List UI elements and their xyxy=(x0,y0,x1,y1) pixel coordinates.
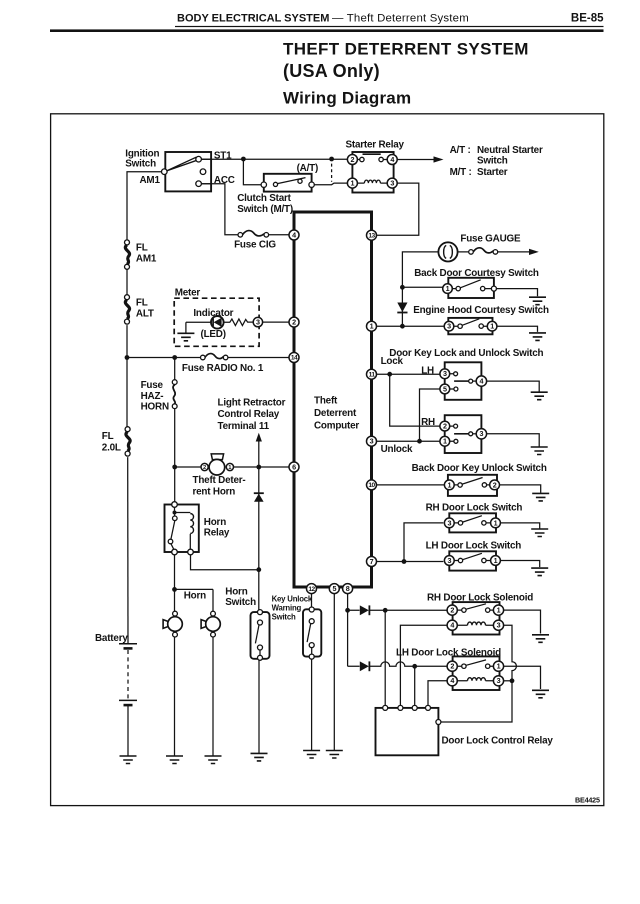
wire computer pin 1 to engine hood courtesy switch xyxy=(377,325,445,327)
svg-text:Switch: Switch xyxy=(477,156,508,167)
node junction pin 1 line / diode vertical xyxy=(400,324,405,329)
svg-text:Door Key Lock and Unlock Switc: Door Key Lock and Unlock Switch xyxy=(389,348,543,359)
diode D2 horn line (cathode up) xyxy=(254,493,264,502)
ground engine hood courtesy xyxy=(529,333,546,341)
RH door lock solenoid xyxy=(427,592,533,634)
ground LH door lock solenoid xyxy=(532,690,549,698)
key unlock warning switch xyxy=(272,595,322,660)
wire LH diode row with hops to LH solenoid pin 2 xyxy=(348,662,448,666)
svg-text:1: 1 xyxy=(490,322,494,331)
wire LH key switch pin 5 to unlock line xyxy=(420,389,440,441)
svg-text:1: 1 xyxy=(351,179,355,188)
meter box with indicator LED xyxy=(174,287,259,346)
svg-text:FL: FL xyxy=(136,298,148,309)
svg-text:BE4425: BE4425 xyxy=(575,796,600,805)
svg-text:1: 1 xyxy=(497,606,501,615)
svg-text:Lock: Lock xyxy=(381,356,404,367)
svg-text:Engine Hood Courtesy Switch: Engine Hood Courtesy Switch xyxy=(413,305,549,316)
svg-text:12: 12 xyxy=(308,586,315,593)
node junction radio line / haz-horn branch xyxy=(172,355,177,360)
svg-text:Back Door Courtesy Switch: Back Door Courtesy Switch xyxy=(414,268,539,279)
wire back door key unlock switch to ground xyxy=(500,485,541,493)
LH door lock switch xyxy=(426,540,522,570)
LH door lock solenoid xyxy=(396,648,504,690)
svg-text:HORN: HORN xyxy=(141,402,169,413)
svg-text:2.0L: 2.0L xyxy=(102,443,121,454)
wire RH solenoid pin 3 down with hop to door lock control relay xyxy=(441,625,517,722)
svg-text:(A/T): (A/T) xyxy=(297,163,318,174)
wire RH diode row to RH solenoid pin 2 xyxy=(348,609,448,611)
svg-text:2: 2 xyxy=(450,662,454,671)
svg-text:RH Door Lock Switch: RH Door Lock Switch xyxy=(426,503,523,514)
svg-text:Switch: Switch xyxy=(125,159,156,170)
starter relay xyxy=(346,139,405,192)
node junction pin 8 / RH diode branch xyxy=(345,608,350,613)
wire LH solenoid pin 3 stub xyxy=(504,680,512,682)
node ST1 A/T dashed branch xyxy=(329,157,334,162)
ground horn switch xyxy=(251,753,268,761)
wire ST1 branch down to clutch start switch xyxy=(243,159,261,185)
svg-text:4: 4 xyxy=(390,155,394,164)
wire fuse radio no.1 line xyxy=(127,357,289,359)
svg-text:1: 1 xyxy=(370,322,374,331)
svg-text:3: 3 xyxy=(447,322,451,331)
svg-text:M/T :: M/T : xyxy=(450,167,472,178)
pin 5 computer xyxy=(329,584,339,594)
wire meter to computer pin 2 xyxy=(263,321,289,323)
svg-text:5: 5 xyxy=(443,384,447,393)
wire A/T dashed bypass xyxy=(331,164,333,182)
engine hood courtesy switch xyxy=(413,305,549,334)
pin 7 computer xyxy=(367,557,377,567)
node junction RH diode / relay vertical A xyxy=(383,608,388,613)
svg-text:HAZ-: HAZ- xyxy=(141,391,164,402)
svg-text:3: 3 xyxy=(390,179,394,188)
svg-text:1: 1 xyxy=(494,556,498,565)
svg-text:3: 3 xyxy=(443,369,447,378)
wire FL 2.0L to battery xyxy=(127,457,129,643)
svg-text:Key Unlock: Key Unlock xyxy=(272,595,313,604)
wire RH door lock switch feed xyxy=(404,523,443,562)
wire computer pin 10 to back door key unlock switch xyxy=(377,484,445,486)
svg-text:Light Retractor: Light Retractor xyxy=(218,397,286,408)
svg-text:Clutch Start: Clutch Start xyxy=(237,193,291,204)
svg-text:FL: FL xyxy=(136,243,148,254)
battery xyxy=(95,633,137,756)
wire left rail FL ALT to FL 2.0L xyxy=(126,325,128,427)
svg-text:Fuse CIG: Fuse CIG xyxy=(234,240,276,251)
pin 10 computer xyxy=(367,480,377,490)
wire ST1 to starter relay pin 2 xyxy=(201,158,347,160)
pin 12 computer xyxy=(307,584,317,594)
wire left rail FL AM1 to FL ALT xyxy=(126,269,128,294)
wire computer pin 8 down to diodes xyxy=(347,593,349,666)
back door courtesy switch xyxy=(414,268,539,298)
svg-text:Starter Relay: Starter Relay xyxy=(346,139,405,150)
svg-text:(LED): (LED) xyxy=(201,329,226,340)
svg-text:Fuse RADIO No. 1: Fuse RADIO No. 1 xyxy=(182,363,264,374)
svg-text:Relay: Relay xyxy=(204,528,230,539)
svg-text:Wiring Diagram: Wiring Diagram xyxy=(283,89,411,108)
wire starter relay pin 3 to computer pin 13 xyxy=(377,183,419,235)
ground key unlock warning switch xyxy=(303,751,320,759)
ground RH door lock switch xyxy=(531,529,548,537)
svg-text:LH Door Lock Switch: LH Door Lock Switch xyxy=(426,540,522,551)
node junction back door line xyxy=(400,285,405,290)
wire retractor vertical down through diode to horn switch xyxy=(258,467,260,610)
wire horn switch to ground xyxy=(258,660,260,753)
svg-text:1: 1 xyxy=(447,480,451,489)
svg-text:6: 6 xyxy=(292,462,296,471)
node junction horn feed split xyxy=(172,587,177,592)
ground LH door lock switch xyxy=(531,568,548,576)
fuse GAUGE xyxy=(438,233,521,261)
svg-text:3: 3 xyxy=(256,318,260,327)
svg-text:Horn: Horn xyxy=(225,587,247,598)
svg-text:4: 4 xyxy=(450,621,454,630)
svg-text:Terminal 11: Terminal 11 xyxy=(218,421,270,432)
svg-text:Back Door Key Unlock Switch: Back Door Key Unlock Switch xyxy=(412,463,547,474)
pin 6 computer xyxy=(289,462,299,472)
ground meter internal xyxy=(177,333,194,341)
wire horn R to ground xyxy=(212,637,214,756)
svg-text:A/T :: A/T : xyxy=(450,145,471,156)
wire clutch start switch to starter relay pin 1 xyxy=(314,183,347,185)
svg-text:4: 4 xyxy=(450,676,454,685)
door lock control relay xyxy=(376,705,554,755)
pin 3 computer xyxy=(367,436,377,446)
svg-text:10: 10 xyxy=(368,482,375,489)
svg-text:Switch: Switch xyxy=(225,597,256,608)
node junction lock line split xyxy=(387,372,392,377)
ground back door courtesy xyxy=(529,297,546,305)
svg-text:FL: FL xyxy=(102,431,114,442)
svg-text:Computer: Computer xyxy=(314,420,359,431)
svg-text:3: 3 xyxy=(447,518,451,527)
wire relay vertical A xyxy=(384,610,386,707)
svg-text:13: 13 xyxy=(368,232,375,239)
svg-text:BODY ELECTRICAL SYSTEM: BODY ELECTRICAL SYSTEM xyxy=(177,13,329,25)
svg-text:Door Lock Control Relay: Door Lock Control Relay xyxy=(442,735,554,746)
svg-text:2: 2 xyxy=(292,318,296,327)
wire LH key switch pin 4 to ground xyxy=(487,381,540,392)
svg-text:1: 1 xyxy=(497,662,501,671)
theft deterrent computer U1 xyxy=(294,212,372,587)
diode D4 LH solenoid feed xyxy=(360,661,370,671)
svg-text:8: 8 xyxy=(346,584,350,593)
svg-text:BE-85: BE-85 xyxy=(571,13,604,25)
svg-text:3: 3 xyxy=(480,429,484,438)
wire ACC to fuse CIG to computer pin 4 xyxy=(201,184,238,235)
diode D3 RH solenoid feed xyxy=(360,605,370,615)
node junction haz vertical / horn line xyxy=(172,465,177,470)
wire LH solenoid pin 4 to relay vertical D xyxy=(428,681,447,707)
svg-text:Switch (M/T): Switch (M/T) xyxy=(237,204,293,215)
svg-text:(USA Only): (USA Only) xyxy=(283,61,380,81)
svg-text:Warning: Warning xyxy=(272,604,302,613)
svg-text:3: 3 xyxy=(497,676,501,685)
svg-text:3: 3 xyxy=(370,437,374,446)
wire haz-horn fuse to horn relay xyxy=(174,409,176,502)
wire RH door lock switch to ground xyxy=(500,523,539,529)
diagram frame xyxy=(51,114,604,806)
svg-text:2: 2 xyxy=(203,465,206,471)
fuse CIG xyxy=(234,231,276,251)
svg-text:AM1: AM1 xyxy=(136,254,157,265)
theft deterrent horn xyxy=(193,454,246,498)
node junction horn relay wire / horn switch vertical xyxy=(256,567,261,572)
wire fuse CIG to pin 4 xyxy=(269,234,289,236)
svg-text:4: 4 xyxy=(480,377,484,386)
svg-text:Control Relay: Control Relay xyxy=(218,409,280,420)
pin 8 computer xyxy=(343,584,353,594)
svg-text:4: 4 xyxy=(292,230,296,239)
wire computer pin 5 to ground xyxy=(333,593,335,750)
ground back door key unlock xyxy=(532,493,549,501)
wire lock branch down to RH key switch pin 2 xyxy=(390,374,440,426)
wire haz-horn branch down xyxy=(174,358,176,380)
svg-text:5: 5 xyxy=(332,584,336,593)
ground door key RH xyxy=(531,447,548,455)
svg-text:1: 1 xyxy=(446,284,450,293)
back door key unlock switch xyxy=(412,463,547,496)
svg-text:Theft: Theft xyxy=(314,396,338,407)
svg-text:AM1: AM1 xyxy=(140,175,161,186)
svg-text:THEFT DETERRENT SYSTEM: THEFT DETERRENT SYSTEM xyxy=(283,40,529,59)
ground RH door lock solenoid xyxy=(532,635,549,643)
ground horn left xyxy=(166,756,183,764)
wire computer pin 11 lock line to LH key switch xyxy=(377,373,440,375)
ground battery xyxy=(120,756,137,764)
svg-text:ALT: ALT xyxy=(136,309,154,320)
wire back door courtesy switch to ground xyxy=(496,289,537,297)
wire AM1 feed from ignition switch to left rail xyxy=(127,172,162,240)
fusible link FL 2.0L xyxy=(125,427,130,456)
ground computer pin 5 xyxy=(326,751,343,759)
svg-text:ACC: ACC xyxy=(214,175,235,186)
wire LH solenoid pin 1 to ground xyxy=(504,666,541,689)
fuse HAZ-HORN xyxy=(141,380,178,413)
wire LH door lock switch to ground xyxy=(500,561,539,568)
svg-text:1: 1 xyxy=(494,518,498,527)
svg-text:Deterrent: Deterrent xyxy=(314,408,357,419)
wire computer pin 7 to LH door lock switch xyxy=(377,561,444,563)
page header rule xyxy=(50,26,604,32)
ground horn right xyxy=(205,756,222,764)
wire relay vertical C xyxy=(414,666,416,707)
fusible link FL AM1 xyxy=(125,240,130,269)
clutch start switch xyxy=(237,174,314,215)
svg-text:Theft Deter-: Theft Deter- xyxy=(193,475,246,486)
door key RH switch xyxy=(421,415,486,453)
wire RH key switch pin 3 to ground xyxy=(487,434,540,447)
svg-text:3: 3 xyxy=(447,556,451,565)
svg-text:Fuse: Fuse xyxy=(141,380,164,391)
wire starter relay pin 4 to A/T arrow xyxy=(397,159,434,161)
svg-text:2: 2 xyxy=(443,422,447,431)
svg-text:ST1: ST1 xyxy=(214,151,232,162)
wire computer pin 12 to key unlock warning switch and ground xyxy=(311,593,313,750)
node junction unlock line split xyxy=(417,439,422,444)
svg-text:Fuse GAUGE: Fuse GAUGE xyxy=(460,233,521,244)
svg-text:1: 1 xyxy=(443,437,447,446)
pin 4 computer xyxy=(289,230,299,240)
pin 2 computer xyxy=(289,317,299,327)
svg-text:Switch: Switch xyxy=(272,613,296,622)
label light retractor control relay terminal 11 xyxy=(218,397,286,432)
wire theft deterrent horn line to computer pin 6 xyxy=(175,466,289,468)
RH door lock switch xyxy=(426,503,523,533)
svg-text:Starter: Starter xyxy=(477,167,508,178)
wire light retractor arrow xyxy=(258,441,260,467)
node junction pin 7 line / RH lock branch xyxy=(402,559,407,564)
horn right xyxy=(201,611,220,637)
horn left xyxy=(163,611,182,637)
svg-text:7: 7 xyxy=(370,557,374,566)
svg-text:Horn: Horn xyxy=(184,591,206,602)
wire diode vertical up to back door line and fuse gauge xyxy=(402,252,438,326)
ground door key LH xyxy=(531,392,548,400)
horn relay xyxy=(165,502,230,555)
wire horn L to ground xyxy=(174,637,176,756)
wire RH solenoid pin 4 to relay vertical B xyxy=(400,625,447,707)
node junction LH solenoid pin 3 / relay feed xyxy=(510,678,515,683)
svg-text:Meter: Meter xyxy=(175,287,201,298)
wire RH solenoid pin 1 to ground xyxy=(504,610,541,633)
resistor meter internal xyxy=(224,319,253,326)
pin 11 computer xyxy=(367,369,377,379)
wire engine hood courtesy switch to ground xyxy=(497,326,538,332)
svg-text:RH: RH xyxy=(421,417,435,428)
svg-text:2: 2 xyxy=(450,606,454,615)
svg-text:Horn: Horn xyxy=(204,517,226,528)
ignition switch SW1 xyxy=(125,148,234,191)
svg-text:RH Door Lock Solenoid: RH Door Lock Solenoid xyxy=(427,592,533,603)
horn switch xyxy=(225,587,269,661)
wire horn relay right pin to junction xyxy=(191,555,259,570)
label A/T M/T starter xyxy=(450,145,543,178)
diode D1 (to fuse gauge line) xyxy=(397,303,407,313)
fuse RADIO No. 1 xyxy=(182,354,264,375)
svg-text:3: 3 xyxy=(497,621,501,630)
svg-text:Unlock: Unlock xyxy=(381,444,413,455)
svg-text:rent Horn: rent Horn xyxy=(193,486,236,497)
node junction LH diode / relay vertical C xyxy=(412,664,417,669)
svg-text:LH: LH xyxy=(421,365,434,376)
wire horn relay left pin to horns xyxy=(175,555,214,612)
door key LH switch xyxy=(421,362,486,400)
wire fuse gauge output arrow xyxy=(458,251,530,253)
pin 14 computer xyxy=(289,353,299,363)
svg-text:Neutral Starter: Neutral Starter xyxy=(477,145,543,156)
pin 13 computer xyxy=(367,230,377,240)
svg-text:— Theft Deterrent System: — Theft Deterrent System xyxy=(332,13,469,25)
fusible link FL ALT xyxy=(125,295,130,324)
node terminal 3 on meter xyxy=(253,317,262,326)
svg-text:Battery: Battery xyxy=(95,633,128,644)
wire computer pin 3 unlock line to RH key switch pin 1 xyxy=(377,440,440,442)
LED indicator xyxy=(211,316,224,329)
svg-text:14: 14 xyxy=(291,355,298,362)
node ST1 clutch branch xyxy=(241,157,246,162)
node junction left rail / fuse radio xyxy=(125,355,130,360)
svg-text:LH Door Lock Solenoid: LH Door Lock Solenoid xyxy=(396,648,501,659)
pin 1 computer xyxy=(367,321,377,331)
svg-text:2: 2 xyxy=(351,155,355,164)
node junction horn line / retractor vertical xyxy=(256,465,261,470)
wire back door courtesy feed xyxy=(402,286,442,288)
svg-text:11: 11 xyxy=(369,371,376,378)
svg-text:2: 2 xyxy=(493,480,497,489)
